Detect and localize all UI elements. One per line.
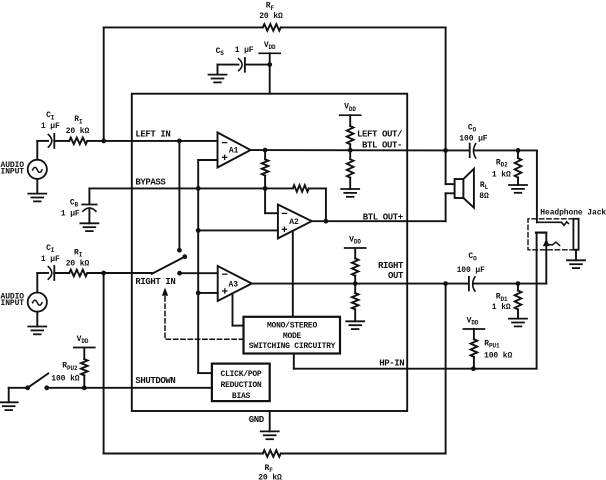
wire: SHUTDOWN net (switch to click/pop block) <box>47 387 212 389</box>
svg-text:CLICK/POP: CLICK/POP <box>221 370 262 379</box>
svg-text:HP-IN: HP-IN <box>379 358 404 368</box>
svg-text:VDD: VDD <box>344 103 356 113</box>
svg-text:1 μF: 1 μF <box>235 46 254 55</box>
junction: shutdown switch right terminal <box>44 385 49 390</box>
wire: A2 output / BTL OUT+ net <box>312 220 446 222</box>
svg-text:VDD: VDD <box>77 335 89 345</box>
svg-text:MODE: MODE <box>283 332 302 341</box>
junction: A1 feedback / bypass node <box>263 186 268 191</box>
wire: LEFT IN net (RI to A1 inverting input) <box>87 140 217 142</box>
speaker RL (8 ohm load) <box>446 150 489 221</box>
power VDD (left channel bias) <box>340 103 361 116</box>
svg-text:1 μF: 1 μF <box>41 255 60 264</box>
svg-text:VDD: VDD <box>467 317 479 327</box>
svg-text:INPUT: INPUT <box>1 168 25 177</box>
capacitor CB (bypass, 1 uF) <box>61 198 97 223</box>
ground (jack sleeve) <box>567 260 585 268</box>
wire: CI to RI (right) <box>54 272 69 274</box>
ground (right bias divider) <box>346 321 364 329</box>
svg-text:20 kΩ: 20 kΩ <box>258 473 282 480</box>
svg-text:RI: RI <box>74 248 83 258</box>
svg-text:BTL OUT-: BTL OUT- <box>362 141 402 151</box>
wire: jack tip feed (left channel) <box>518 150 537 222</box>
wire: source to CI (right) <box>37 272 48 274</box>
svg-text:CS: CS <box>216 47 225 57</box>
svg-text:20 kΩ: 20 kΩ <box>66 260 90 269</box>
junction: A3 non-inverting node <box>196 291 201 296</box>
label: AUDIO INPUT (left channel) <box>1 161 25 177</box>
AC source V1 (left audio input) <box>28 141 47 194</box>
junction: mux switch upper terminal <box>177 248 182 253</box>
wire: HP-IN net (switching circuitry to headphone jack sense) <box>294 354 537 369</box>
capacitor CO (left output, 100 uF) <box>446 124 518 158</box>
wire: CI to RI (left) <box>54 140 69 142</box>
svg-text:VDD: VDD <box>264 41 276 51</box>
svg-text:BTL OUT+: BTL OUT+ <box>363 213 403 223</box>
wire: CS to ground <box>218 65 239 75</box>
svg-text:RL: RL <box>480 181 489 191</box>
svg-text:MONO/STEREO: MONO/STEREO <box>267 322 318 331</box>
wire: bottom feedback left vertical (RIGHT IN node down) <box>104 273 263 454</box>
svg-text:1 μF: 1 μF <box>41 122 60 131</box>
resistor internal (right bias upper) <box>352 248 359 284</box>
wire: BYPASS net (CB to internal divider) <box>89 188 265 204</box>
svg-text:100 kΩ: 100 kΩ <box>51 374 80 383</box>
svg-text:CO: CO <box>468 124 477 134</box>
jack tip contact <box>537 222 569 226</box>
svg-text:VDD: VDD <box>349 236 361 246</box>
switch SW2 (shutdown) arm <box>28 373 49 387</box>
svg-text:100 μF: 100 μF <box>459 135 488 144</box>
resistor internal (left bias lower) <box>347 150 354 189</box>
junction: LEFT IN / mux tap node <box>177 139 182 144</box>
junction: RIGHT OUT bias node <box>353 281 358 286</box>
svg-text:RD2: RD2 <box>496 159 508 169</box>
ground (below right audio source) <box>28 327 46 335</box>
block: MONO/STEREO MODE SWITCHING CIRCUITRY <box>244 317 341 354</box>
svg-text:INPUT: INPUT <box>1 299 25 308</box>
junction: LEFT OUT / RF / speaker node <box>443 148 448 153</box>
svg-text:20 kΩ: 20 kΩ <box>66 127 90 136</box>
resistor RF (top feedback 20 k-ohm) <box>259 2 283 31</box>
label: GND pin <box>249 415 265 425</box>
wire: GND pin to ground <box>269 411 271 431</box>
resistor RF (bottom feedback 20 k-ohm) <box>258 450 282 480</box>
label: RIGHT IN pin <box>135 277 175 287</box>
svg-text:RI: RI <box>74 115 83 125</box>
block: CLICK/POP REDUCTION BIAS <box>212 364 270 402</box>
svg-text:LEFT OUT/: LEFT OUT/ <box>357 130 402 140</box>
svg-text:CI: CI <box>46 111 55 121</box>
svg-text:1 kΩ: 1 kΩ <box>492 303 511 312</box>
resistor RPU2 (100 k-ohm pull-up) <box>51 348 87 388</box>
wire: A1 output / LEFT OUT net <box>251 149 446 151</box>
wire: A2 inverting input <box>265 188 278 213</box>
wire: A2 non-inverting input to bypass rail <box>198 229 278 231</box>
resistor RI (left, 20 k-ohm) <box>66 115 90 144</box>
wire: A3 non-inverting input <box>198 292 218 294</box>
svg-text:CO: CO <box>468 252 477 262</box>
ground (below left audio source) <box>28 194 46 202</box>
wire: A3 output / RIGHT OUT net <box>252 283 446 285</box>
svg-text:A3: A3 <box>229 280 239 289</box>
svg-text:GND: GND <box>249 415 265 425</box>
op-amp A1 <box>218 133 251 168</box>
junction: SHUTDOWN / RPU2 node <box>82 385 87 390</box>
junction: VDD / CS node <box>267 62 272 67</box>
junction: A1 output node <box>263 148 268 153</box>
svg-text:1 kΩ: 1 kΩ <box>492 170 511 179</box>
svg-text:A1: A1 <box>229 147 239 156</box>
svg-text:100 kΩ: 100 kΩ <box>484 352 513 361</box>
wire: source to CI (left) <box>37 140 48 142</box>
resistor RD2 (1 k-ohm) <box>492 150 521 185</box>
op-amp A3 <box>218 266 252 301</box>
junction: shutdown switch left terminal <box>25 385 30 390</box>
svg-text:Headphone Jack: Headphone Jack <box>540 209 606 218</box>
junction: RD2 / jack tip node <box>516 148 521 153</box>
resistor internal (A2 input, horizontal) <box>265 185 326 221</box>
label: RIGHT OUT pin <box>378 261 404 281</box>
label: Headphone Jack <box>540 209 606 218</box>
svg-text:RD1: RD1 <box>496 293 508 303</box>
junction: LEFT OUT bias node <box>348 148 353 153</box>
label: HP-IN pin <box>379 358 404 368</box>
wire: plug sleeve to ground <box>575 250 577 260</box>
jack ring contact with arrow <box>544 240 560 246</box>
svg-text:RF: RF <box>266 2 275 12</box>
junction: RD1 / jack ring node <box>516 281 521 286</box>
switch SW1 (mono/stereo input mux) arm <box>152 257 185 274</box>
svg-text:A2: A2 <box>289 218 299 227</box>
junction: HP-IN / RPU1 node <box>471 366 476 371</box>
label: LEFT IN pin <box>135 130 170 140</box>
jack sense contact (HP-IN) <box>536 233 546 369</box>
ground (below CS) <box>209 75 227 83</box>
svg-text:CB: CB <box>70 198 79 208</box>
svg-text:OUT: OUT <box>388 271 404 281</box>
label: BYPASS pin <box>135 177 166 187</box>
junction: RIGHT OUT / RF node <box>443 281 448 286</box>
resistor RPU1 (100 k-ohm pull-up) <box>471 329 513 369</box>
ground (below RD2) <box>509 185 527 193</box>
junction: RIGHT IN / RF node <box>101 271 106 276</box>
wire: CS to VDD pin <box>245 64 270 66</box>
op-amp A2 <box>278 205 312 239</box>
resistor internal (A1 feedback upper) <box>262 150 269 188</box>
svg-text:CI: CI <box>46 244 55 254</box>
label: LEFT OUT / BTL OUT- pin <box>357 130 402 151</box>
power VDD (RPU1 pull-up) <box>463 317 484 330</box>
wire: ground to shutdown switch <box>9 387 28 389</box>
power VDD (right channel bias) <box>345 236 366 249</box>
wire: A2 mute control to switching circuitry <box>292 231 294 317</box>
svg-text:LEFT IN: LEFT IN <box>135 130 170 140</box>
capacitor CI (left, 1 uF) <box>41 111 60 148</box>
svg-text:100 μF: 100 μF <box>457 266 486 275</box>
junction: A2 non-inverting node <box>196 228 201 233</box>
svg-text:RPU2: RPU2 <box>62 362 78 372</box>
svg-text:8Ω: 8Ω <box>479 192 489 201</box>
wire: top feedback loop left vertical (LEFT IN node to RF) <box>104 27 263 140</box>
svg-text:SWITCHING CIRCUITRY: SWITCHING CIRCUITRY <box>249 342 336 351</box>
resistor RD1 (1 k-ohm) <box>492 284 522 319</box>
resistor internal (right bias lower) <box>352 284 359 322</box>
ground (shutdown switch) <box>0 388 18 410</box>
capacitor CI (right, 1 uF) <box>41 244 60 280</box>
ground (below CB) <box>80 223 98 231</box>
wire: A1 non-inverting input to bypass rail <box>198 160 217 188</box>
capacitor CO (right output, 100 uF) <box>446 252 518 291</box>
wire: LEFT IN to mux switch <box>178 141 180 250</box>
svg-text:RIGHT IN: RIGHT IN <box>135 277 175 287</box>
junction: mux switch lower terminal <box>177 271 182 276</box>
svg-text:RIGHT: RIGHT <box>378 261 404 271</box>
resistor RI (right, 20 k-ohm) <box>66 248 90 276</box>
label: BTL OUT+ pin <box>363 213 403 223</box>
wire: A3 control to switching circuitry <box>233 293 244 325</box>
label: SHUTDOWN pin <box>135 376 175 386</box>
headphone jack J1 enclosure (dashed) <box>528 219 573 250</box>
svg-text:SHUTDOWN: SHUTDOWN <box>135 376 175 386</box>
wire: common-mode rail (bypass vertical) <box>198 188 212 373</box>
svg-text:RPU1: RPU1 <box>484 339 500 349</box>
svg-text:20 kΩ: 20 kΩ <box>259 12 283 21</box>
label: AUDIO INPUT (right channel) <box>1 292 25 308</box>
resistor internal (left bias upper) <box>347 115 354 150</box>
headphone plug body <box>573 219 578 250</box>
IC boundary box (amplifier U1) <box>132 94 407 411</box>
ground (below RD1) <box>509 319 527 327</box>
ground (left bias divider) <box>341 189 359 197</box>
svg-text:REDUCTION: REDUCTION <box>221 381 262 390</box>
power VDD (RPU2 pull-up) <box>74 335 95 348</box>
junction: LEFT IN / RF node <box>101 139 106 144</box>
svg-text:BYPASS: BYPASS <box>135 177 166 187</box>
wire: bottom feedback right segment up to RIGHT OUT node <box>281 284 446 454</box>
wire: top feedback right segment and vertical to LEFT OUT node <box>281 27 446 150</box>
svg-text:1 μF: 1 μF <box>61 209 80 218</box>
wire: jack ring feed (right channel) <box>518 233 546 284</box>
wire: mux to A3 inverting input <box>180 272 218 274</box>
junction: A2 output node <box>324 219 329 224</box>
junction: mux switch arm end <box>182 254 187 259</box>
dashed control line: switching circuitry to input mux <box>163 289 244 339</box>
AC source V2 (right audio input) <box>28 273 47 327</box>
junction: BYPASS node at common-mode rail <box>196 186 201 191</box>
power VDD (main supply) <box>259 41 280 94</box>
svg-text:BIAS: BIAS <box>232 392 251 401</box>
wire: RIGHT IN net (RI to mux pivot) <box>87 272 152 274</box>
capacitor CS (supply bypass, 1 uF) <box>216 46 254 71</box>
ground (GND pin) <box>261 431 279 439</box>
